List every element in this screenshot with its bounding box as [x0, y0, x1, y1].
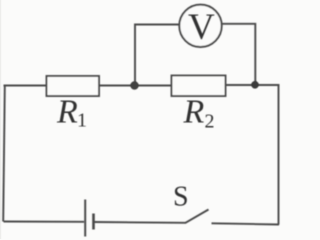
wire bottom-left to battery — [4, 221, 85, 223]
resistor R1 — [47, 76, 100, 96]
svg-text:V: V — [188, 7, 215, 48]
svg-text:R: R — [56, 94, 78, 131]
wire node B to top-right corner — [254, 85, 279, 86]
wire R1 to node A — [99, 85, 136, 87]
svg-text:R: R — [183, 94, 205, 131]
battery short plate — [92, 214, 95, 230]
svg-text:1: 1 — [77, 110, 87, 132]
scan edge artifact left — [0, 0, 1, 239]
battery long plate — [84, 200, 86, 237]
svg-text:S: S — [173, 182, 189, 213]
wire top-left to R1 — [4, 85, 48, 87]
wire voltmeter to node B — [222, 24, 256, 85]
wire right side down — [278, 85, 280, 225]
wire left side down — [3, 86, 5, 222]
wire node A to R2 — [134, 85, 172, 87]
voltmeter U1 circle — [179, 5, 221, 47]
node A junction dot — [130, 81, 138, 89]
switch S blade — [186, 210, 209, 223]
wire battery to switch pivot — [95, 221, 187, 224]
svg-text:2: 2 — [205, 111, 215, 133]
wire R2 to node B — [226, 84, 257, 86]
wire node A up to voltmeter — [135, 25, 180, 86]
wire switch to bottom-right corner — [212, 223, 280, 224]
node B junction dot — [251, 81, 259, 89]
resistor R2 — [172, 76, 226, 97]
